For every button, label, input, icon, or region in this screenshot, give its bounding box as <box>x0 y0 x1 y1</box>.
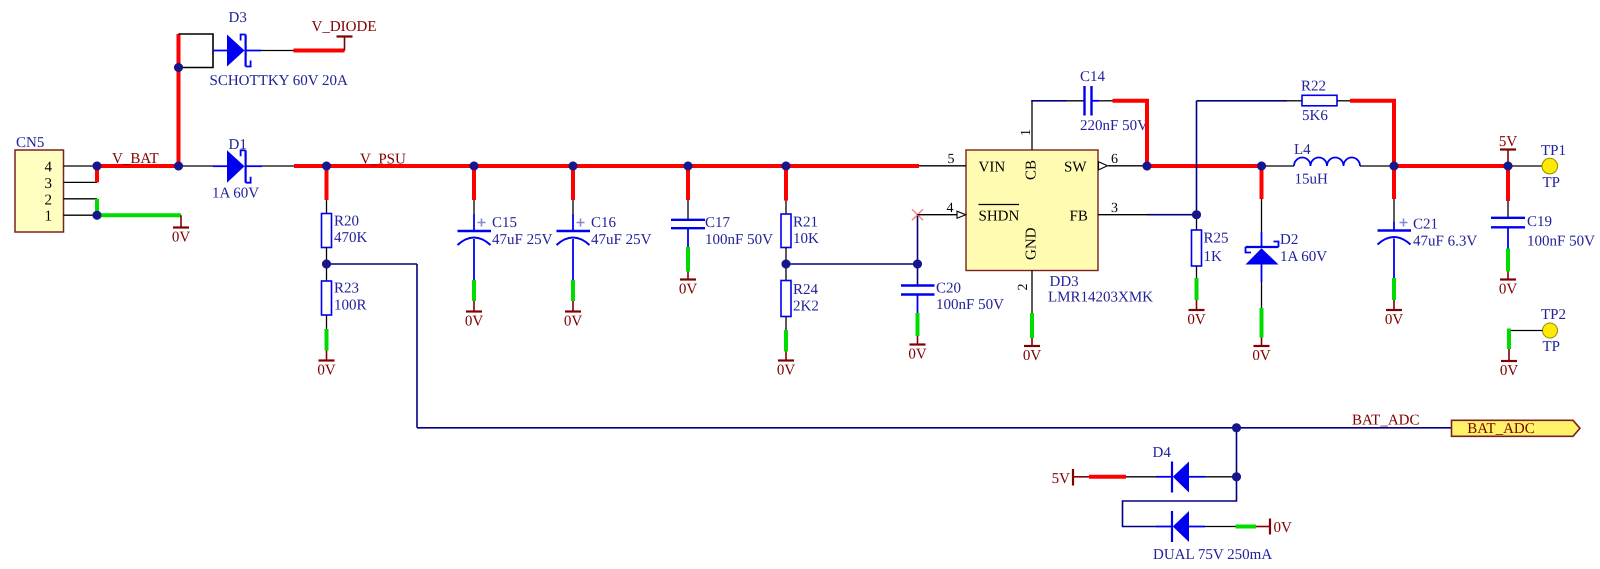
inductor L4 <box>1262 142 1395 188</box>
wire black to D1 anode <box>179 165 214 167</box>
wire green stub C20 <box>916 313 920 336</box>
svg-text:VIN: VIN <box>979 160 1006 176</box>
diode D4 lower <box>1153 511 1272 563</box>
svg-text:D4: D4 <box>1153 445 1172 461</box>
svg-text:C20: C20 <box>936 281 961 297</box>
junction SW node <box>1143 162 1152 171</box>
svg-text:R21: R21 <box>793 215 818 231</box>
junction overlay D4 <box>1232 472 1241 481</box>
svg-text:100nF 50V: 100nF 50V <box>936 297 1004 313</box>
svg-text:0V: 0V <box>1274 520 1293 536</box>
svg-text:1: 1 <box>45 209 53 225</box>
junction overlay V_BAT <box>174 162 183 171</box>
junction R20/R23 node <box>322 260 331 269</box>
op-amp? no: regulator U DD3 body <box>966 150 1153 306</box>
junction overlay R20/R23 <box>322 260 331 269</box>
test point TP2 <box>1541 307 1566 355</box>
svg-text:SW: SW <box>1064 160 1087 176</box>
wire red R22 to 5V node <box>1350 101 1394 166</box>
svg-text:R24: R24 <box>793 282 819 298</box>
D3 body loop (black square) <box>179 34 214 68</box>
svg-text:V_PSU: V_PSU <box>360 152 406 168</box>
CN5 pin 3 <box>45 176 98 192</box>
svg-text:1A 60V: 1A 60V <box>1280 249 1327 265</box>
svg-text:220nF 50V: 220nF 50V <box>1080 118 1148 134</box>
junction overlay 5V node <box>1504 162 1513 171</box>
DD3 pin 2 GND <box>1016 227 1040 313</box>
svg-text:0V: 0V <box>317 363 336 379</box>
wire black D4 lower anode <box>1205 526 1236 528</box>
ground 0V under R24 <box>777 352 796 379</box>
power port 5V <box>1499 134 1518 166</box>
svg-text:47uF 6.3V: 47uF 6.3V <box>1413 234 1477 250</box>
wire red 5V to D4 <box>1089 475 1126 479</box>
DD3 pin 1 CB <box>1019 101 1040 180</box>
wire navy R21 node to C20 node <box>786 263 918 265</box>
svg-text:FB: FB <box>1070 209 1088 225</box>
wire black D2 top lead <box>1261 199 1263 232</box>
svg-text:0V: 0V <box>1500 363 1519 379</box>
junction overlay R20 top <box>322 162 331 171</box>
junction overlay R21 top <box>782 162 791 171</box>
junction BAT_ADC/D4 node <box>1232 423 1241 432</box>
ground 0V under TP2 <box>1500 349 1519 379</box>
diode D4 upper <box>1153 445 1206 493</box>
svg-text:CB: CB <box>1024 160 1040 180</box>
ground 0V under R23 <box>317 351 336 379</box>
svg-text:C16: C16 <box>591 215 617 231</box>
svg-text:100nF 50V: 100nF 50V <box>1527 234 1595 250</box>
junction overlay C15 <box>470 162 479 171</box>
junction V_PSU at C15 <box>470 162 479 171</box>
svg-text:L4: L4 <box>1294 142 1311 158</box>
junction at CN5 pin 1 <box>93 211 102 220</box>
wire green stub GND pin <box>1030 313 1034 338</box>
wire V_PSU red bus <box>294 164 919 168</box>
svg-text:0V: 0V <box>465 314 484 330</box>
wire navy to BAT_ADC (horizontal) <box>327 263 418 265</box>
svg-text:470K: 470K <box>334 230 368 246</box>
capacitor C17 <box>671 200 773 248</box>
junction at D3 loop bottom <box>174 63 183 72</box>
svg-text:D3: D3 <box>229 10 247 26</box>
svg-text:0V: 0V <box>1187 312 1206 328</box>
svg-text:CN5: CN5 <box>16 135 44 151</box>
svg-text:SHDN: SHDN <box>979 209 1020 225</box>
svg-text:3: 3 <box>45 176 53 192</box>
wire black to TP1 <box>1508 165 1542 167</box>
svg-text:TP1: TP1 <box>1541 143 1566 159</box>
svg-text:0V: 0V <box>908 347 927 363</box>
svg-text:V_DIODE: V_DIODE <box>312 19 377 35</box>
junction 5V/TP1/C19 node <box>1504 162 1513 171</box>
svg-text:LMR14203XMK: LMR14203XMK <box>1048 290 1153 306</box>
ground 0V under CN5 <box>172 215 191 245</box>
svg-text:0V: 0V <box>564 314 583 330</box>
svg-text:100nF 50V: 100nF 50V <box>705 232 773 248</box>
svg-text:C15: C15 <box>492 215 517 231</box>
junction V_BAT at D1 row <box>174 162 183 171</box>
svg-text:R20: R20 <box>334 214 359 230</box>
resistor R20 <box>322 214 368 248</box>
svg-text:D2: D2 <box>1280 232 1298 248</box>
svg-text:1A 60V: 1A 60V <box>212 186 259 202</box>
resistor R23 <box>322 264 367 329</box>
ground 0V under GND pin <box>1023 338 1042 364</box>
svg-text:BAT_ADC: BAT_ADC <box>1352 413 1420 429</box>
svg-text:4: 4 <box>45 160 53 176</box>
wire green stub C19 <box>1506 249 1510 272</box>
capacitor C19 <box>1491 201 1595 250</box>
wire red 5V bus <box>1394 164 1508 168</box>
ground 0V under C20 <box>908 336 927 363</box>
no-ERC cross at SHDN <box>912 209 923 220</box>
ground 0V under C19 <box>1499 272 1518 298</box>
power port 5V (bottom) <box>1052 469 1089 487</box>
svg-text:10K: 10K <box>793 231 819 247</box>
junction 5V node at C21 <box>1390 162 1399 171</box>
wire navy to BAT_ADC (vertical) <box>416 264 418 428</box>
wire black to D4 upper cathode <box>1126 476 1156 478</box>
wire green 0V segment <box>1236 525 1257 529</box>
DD3 pin 5 VIN <box>919 152 1005 176</box>
svg-text:0V: 0V <box>172 230 191 246</box>
junction C20/SHDN node <box>913 260 922 269</box>
junction overlay C17 <box>684 162 693 171</box>
svg-text:5K6: 5K6 <box>1302 108 1328 124</box>
junction FB/R25 node <box>1192 210 1201 219</box>
wire navy BAT_ADC down to D4 <box>1236 428 1238 477</box>
junction R21/R24 node <box>782 260 791 269</box>
svg-text:2K2: 2K2 <box>793 299 819 315</box>
wire green stub C16 <box>571 280 575 301</box>
wire red stub to C16 <box>571 166 575 200</box>
power port V_DIODE <box>312 19 377 51</box>
svg-text:5V: 5V <box>1052 471 1071 487</box>
CN5 pin 1 <box>45 209 98 225</box>
wire black R20 top lead <box>326 200 328 214</box>
ground 0V under C16 <box>564 301 583 330</box>
svg-text:TP: TP <box>1543 339 1561 355</box>
svg-text:TP2: TP2 <box>1541 307 1566 323</box>
junction V_PSU at C16 <box>569 162 578 171</box>
wire black D2 bottom lead <box>1261 282 1263 308</box>
svg-text:DUAL 75V 250mA: DUAL 75V 250mA <box>1153 547 1272 563</box>
svg-text:TP: TP <box>1543 175 1561 191</box>
wire green stub TP2 <box>1507 329 1511 350</box>
resistor R24 <box>781 264 819 330</box>
wire red stub to R21 <box>784 166 788 201</box>
wire navy CB to C14 <box>1031 100 1066 102</box>
wire green stub R24 <box>784 330 788 352</box>
svg-text:47uF 25V: 47uF 25V <box>591 232 652 248</box>
junction D4 anode node <box>1232 472 1241 481</box>
CN5 pin 4 <box>45 160 98 176</box>
svg-text:15uH: 15uH <box>1295 172 1329 188</box>
junction L4 left node <box>1257 162 1266 171</box>
wire green stub D2 <box>1260 308 1264 338</box>
ground 0V right of D4 <box>1256 519 1292 537</box>
svg-text:3: 3 <box>1111 201 1118 216</box>
wire black R20 bottom lead <box>326 248 328 265</box>
wire navy to R22 <box>1197 100 1288 102</box>
ground 0V under C21 <box>1385 300 1404 328</box>
junction overlay L4 right <box>1390 162 1399 171</box>
junction overlay FB node <box>1192 210 1201 219</box>
junction V_PSU at C17 <box>684 162 693 171</box>
wire navy FB to R25 node <box>1147 214 1197 216</box>
capacitor C20 <box>901 264 1004 313</box>
junction V_PSU at R21 <box>782 162 791 171</box>
junction overlay L4 left <box>1257 162 1266 171</box>
wire green stub C21 <box>1392 278 1396 300</box>
wire red C14 to SW node <box>1113 101 1148 166</box>
diode D2 <box>1246 232 1328 282</box>
svg-text:R25: R25 <box>1204 231 1229 247</box>
wire green stub C17 <box>686 247 690 272</box>
CN5 pin 2 <box>45 192 98 208</box>
junction overlay at CN5 pin4 <box>93 162 102 171</box>
wire black R21 bottom lead <box>785 248 787 265</box>
svg-text:R23: R23 <box>334 281 359 297</box>
ground 0V under C15 <box>465 301 484 330</box>
svg-text:6: 6 <box>1111 152 1118 167</box>
junction overlay R21/R24 <box>782 260 791 269</box>
junction overlay C16 <box>569 162 578 171</box>
svg-text:SCHOTTKY 60V 20A: SCHOTTKY 60V 20A <box>210 73 349 89</box>
DD3 pin 4 SHDN <box>918 201 1020 225</box>
junction overlay BAT_ADC <box>1232 423 1241 432</box>
test point TP1 <box>1541 143 1566 191</box>
wire black D1 cathode <box>262 165 294 167</box>
capacitor C14 <box>1067 69 1149 134</box>
svg-text:5V: 5V <box>1499 134 1518 150</box>
wire V_BAT red stub pins 4-3 <box>95 166 99 182</box>
wire red stub to D2 <box>1260 166 1264 199</box>
svg-text:0V: 0V <box>1252 348 1271 364</box>
junction at CN5 pin 4 <box>93 162 102 171</box>
diode D3 schottky <box>210 10 349 89</box>
wire 0V green stub pins 2-1 <box>95 199 99 215</box>
wire navy SHDN vertical <box>917 215 919 264</box>
wire 0V green from CN5 pin1 <box>97 213 181 217</box>
svg-text:BAT_ADC: BAT_ADC <box>1467 421 1535 437</box>
wire red stub to C15 <box>472 166 476 200</box>
ground 0V under R25 <box>1187 300 1206 328</box>
wire black D3 cathode <box>261 50 294 52</box>
DD3 pin 3 FB <box>1070 201 1148 225</box>
svg-text:D1: D1 <box>229 137 247 153</box>
svg-text:0V: 0V <box>777 363 796 379</box>
diode D1 <box>212 137 262 202</box>
wire green stub R23 <box>325 329 329 351</box>
wire V_BAT red horizontal <box>97 164 179 168</box>
junction overlay C20 node <box>913 260 922 269</box>
resistor R21 <box>781 201 819 248</box>
wire V_DIODE red <box>294 49 345 53</box>
svg-text:V_BAT: V_BAT <box>112 151 159 167</box>
svg-text:0V: 0V <box>1499 282 1518 298</box>
junction V_PSU at R20 <box>322 162 331 171</box>
wire navy BAT_ADC horizontal <box>417 427 1452 429</box>
wire black TP2 to ground <box>1509 330 1543 332</box>
svg-text:C17: C17 <box>705 215 731 231</box>
capacitor C16 <box>557 200 652 280</box>
wire V_BAT red vertical to D3 <box>177 34 181 166</box>
svg-text:C19: C19 <box>1527 214 1552 230</box>
wire red stub to R20 <box>325 166 329 200</box>
wire navy D4 loop <box>1123 477 1237 527</box>
ground 0V under C17 <box>679 272 698 298</box>
svg-text:2: 2 <box>1016 284 1031 291</box>
port BAT_ADC <box>1452 420 1581 437</box>
junction overlay SW node <box>1143 162 1152 171</box>
svg-text:DD3: DD3 <box>1050 274 1079 290</box>
svg-text:0V: 0V <box>679 282 698 298</box>
svg-text:2: 2 <box>45 192 53 208</box>
wire red SW node to L4 <box>1147 164 1262 168</box>
wire green stub C15 <box>472 280 476 301</box>
wire red stub to C21 <box>1392 166 1396 199</box>
capacitor C15 <box>458 200 553 280</box>
svg-text:1K: 1K <box>1204 249 1223 265</box>
junction overlay at CN5 pin1 <box>93 211 102 220</box>
resistor R22 <box>1287 79 1350 125</box>
capacitor C21 <box>1378 199 1478 278</box>
svg-text:R22: R22 <box>1301 79 1326 95</box>
svg-text:0V: 0V <box>1023 348 1042 364</box>
ground 0V under D2 <box>1252 338 1271 365</box>
svg-text:C21: C21 <box>1413 217 1438 233</box>
wire red stub to C19 <box>1506 166 1510 201</box>
svg-text:5: 5 <box>948 152 955 167</box>
connector CN5 <box>15 135 64 232</box>
DD3 pin 6 SW <box>1064 152 1147 176</box>
wire red stub to C17 <box>686 166 690 200</box>
wire black D4 upper anode <box>1205 476 1237 478</box>
wire navy FB node up <box>1196 101 1198 215</box>
resistor R25 <box>1192 215 1229 278</box>
svg-text:47uF 25V: 47uF 25V <box>492 232 553 248</box>
svg-text:1: 1 <box>1019 129 1034 136</box>
svg-text:4: 4 <box>947 201 954 216</box>
svg-text:100R: 100R <box>334 298 367 314</box>
wire green stub R25 <box>1195 278 1199 300</box>
svg-text:0V: 0V <box>1385 312 1404 328</box>
svg-text:C14: C14 <box>1080 69 1106 85</box>
svg-text:GND: GND <box>1024 227 1040 260</box>
junction overlay D3 loop <box>174 63 183 72</box>
